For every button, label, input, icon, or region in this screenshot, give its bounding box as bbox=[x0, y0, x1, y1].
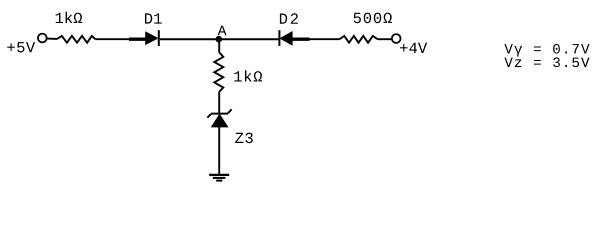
label A bbox=[218, 26, 227, 35]
value label 1kΩ (left resistor) bbox=[56, 12, 83, 23]
wire: 500Ω resistor to +4V terminal bbox=[378, 38, 392, 40]
resistor 1kΩ (vertical) bbox=[214, 52, 223, 92]
wire: D2 anode lead (thick) bbox=[292, 38, 310, 41]
value label 1kΩ (vertical resistor) bbox=[234, 70, 262, 81]
zener diode Z3 bbox=[207, 109, 231, 127]
resistor 1kΩ (left, horizontal) bbox=[57, 36, 95, 43]
label +4V bbox=[400, 43, 427, 53]
node A junction dot bbox=[216, 36, 223, 43]
diode D1 bbox=[146, 30, 159, 46]
resistor 500Ω (right, horizontal) bbox=[340, 36, 378, 43]
wire: D1 cathode to D2 cathode through node A bbox=[160, 38, 279, 40]
label +5V bbox=[7, 42, 35, 52]
wire: node A down to vertical resistor bbox=[218, 39, 220, 52]
value label 500Ω bbox=[354, 13, 392, 24]
diode D2 bbox=[279, 30, 292, 46]
annotation Vγ = 0.7V bbox=[504, 44, 589, 57]
wire: D1 anode lead (thick) bbox=[129, 38, 146, 41]
terminal +4V bbox=[392, 34, 401, 43]
label Z3 bbox=[235, 133, 253, 144]
label D1 bbox=[145, 13, 162, 23]
ground bbox=[209, 175, 229, 181]
annotation Vz = 3.5V bbox=[504, 57, 589, 67]
label D2 bbox=[280, 13, 298, 23]
terminal +5V bbox=[38, 34, 47, 43]
wire: D2 anode to 500Ω resistor bbox=[310, 38, 340, 40]
wire: resistor to D1 anode bbox=[95, 38, 129, 40]
wire: vertical resistor to zener cathode bbox=[218, 92, 220, 114]
wire: +5V terminal to resistor bbox=[47, 38, 58, 40]
wire: zener anode to ground bbox=[218, 127, 220, 175]
